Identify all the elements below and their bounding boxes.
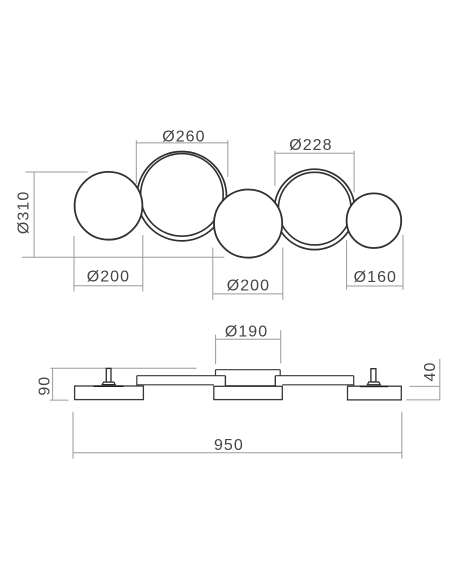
svg-text:Ø260: Ø260 xyxy=(162,128,205,145)
dimension 40 line xyxy=(406,359,440,400)
dimension D260 line xyxy=(136,140,228,184)
side view right block xyxy=(348,386,402,400)
ring sphere D228 outer ring xyxy=(274,169,354,249)
sphere D200 left xyxy=(75,172,143,240)
left screw flange xyxy=(102,382,115,385)
dimension D190 line xyxy=(216,330,281,364)
dimension D310 line xyxy=(22,172,225,258)
right screw stem xyxy=(371,369,376,382)
left screw mounting strip xyxy=(94,385,124,387)
dimension D160 line xyxy=(347,235,403,290)
dimension D200 left line xyxy=(74,235,143,292)
sphere D200 middle xyxy=(214,190,282,258)
left screw stem xyxy=(106,368,111,382)
side view canopy D190 xyxy=(216,370,281,376)
dimension D200 middle line xyxy=(213,248,283,300)
dimension 950 line xyxy=(73,412,402,459)
dimension 90 line xyxy=(50,368,197,400)
svg-text:Ø160: Ø160 xyxy=(354,269,397,286)
sphere D160 right xyxy=(347,193,402,248)
svg-text:Ø228: Ø228 xyxy=(289,137,332,154)
svg-text:Ø190: Ø190 xyxy=(225,323,268,340)
right screw mounting strip xyxy=(360,386,388,388)
svg-text:90: 90 xyxy=(37,376,54,396)
right screw flange xyxy=(367,382,380,385)
side view center block xyxy=(214,386,282,399)
svg-text:Ø310: Ø310 xyxy=(15,191,32,234)
side view left block xyxy=(75,386,144,400)
svg-text:Ø200: Ø200 xyxy=(227,277,270,294)
side view canopy neck xyxy=(225,376,276,387)
svg-text:40: 40 xyxy=(422,362,439,382)
side view bar plate xyxy=(137,376,354,387)
svg-text:950: 950 xyxy=(214,437,244,454)
svg-text:Ø200: Ø200 xyxy=(87,268,130,285)
dimension D228 line xyxy=(275,151,354,193)
ring sphere D260 outer ring xyxy=(137,152,226,241)
ring sphere D228 inner circle xyxy=(278,172,351,245)
ring sphere D260 inner circle xyxy=(141,154,224,237)
